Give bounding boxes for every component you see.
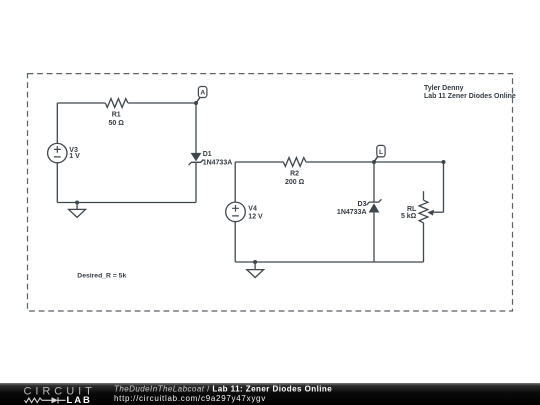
wire: right circuit top, source side [235, 161, 283, 163]
wire: left circuit bottom rail [57, 202, 196, 204]
junction: node L tap [372, 160, 376, 164]
footer logo: resistor-diode glyph [25, 397, 66, 403]
svg-text:V4: V4 [248, 205, 257, 212]
schematic sheet dashed border [28, 74, 513, 311]
ground (left circuit) [69, 203, 86, 218]
wire: V4 top lead [234, 162, 236, 202]
diode D3 (zener) [337, 199, 381, 216]
svg-text:L: L [379, 149, 383, 156]
wire: left circuit top, node A side [128, 102, 196, 104]
wire: RL bottom lead [423, 223, 425, 262]
node A [194, 87, 207, 106]
wire: D3 anode down to bottom rail [373, 213, 375, 262]
svg-text:R2: R2 [290, 171, 299, 178]
resistor R2 [283, 158, 306, 186]
svg-text:R1: R1 [112, 112, 121, 119]
svg-text:200 Ω: 200 Ω [285, 179, 305, 186]
ground (right circuit) [247, 262, 264, 278]
wire: V4 bottom lead [234, 222, 236, 262]
svg-text:LAB: LAB [67, 395, 92, 405]
wire: right circuit top, load side [306, 161, 444, 163]
svg-text:5 kΩ: 5 kΩ [401, 213, 417, 220]
svg-text:1N4733A: 1N4733A [337, 209, 367, 216]
svg-text:TheDudeInTheLabcoat / Lab 11:: TheDudeInTheLabcoat / Lab 11: Zener Diod… [114, 385, 332, 394]
svg-text:D3: D3 [358, 201, 367, 208]
svg-text:1N4733A: 1N4733A [203, 159, 233, 166]
diode D1 (zener) [189, 151, 233, 166]
voltage source V4 [226, 202, 263, 222]
wire: node L down to D3 [373, 162, 375, 202]
svg-text:RL: RL [407, 206, 417, 213]
wire: node A down to D1 [195, 103, 197, 153]
wire: right circuit bottom rail [235, 261, 423, 263]
junction: right ground tap [253, 260, 257, 264]
svg-text:Lab 11 Zener Diodes Online: Lab 11 Zener Diodes Online [424, 93, 516, 100]
junction: top-right corner dot [442, 160, 446, 164]
svg-text:1 V: 1 V [69, 153, 80, 160]
svg-text:50 Ω: 50 Ω [109, 120, 125, 127]
svg-text:http://circuitlab.com/c9a297y4: http://circuitlab.com/c9a297y47xygv [114, 394, 266, 403]
node L [374, 145, 385, 162]
svg-text:D1: D1 [203, 151, 212, 158]
junction: left ground tap [75, 201, 79, 205]
svg-text:A: A [200, 90, 205, 97]
wire: D1 cathode down to bottom rail [195, 162, 197, 202]
svg-text:12 V: 12 V [248, 213, 263, 220]
potentiometer RL (rheostat) [401, 191, 444, 223]
wire: left circuit top, source side [57, 102, 105, 104]
svg-text:Tyler Denny: Tyler Denny [424, 85, 464, 92]
wire: V3 bottom lead [56, 163, 58, 203]
wire: top rail corner down to RL wiper [443, 162, 445, 212]
footer bar [0, 383, 540, 405]
svg-text:Desired_R = 5k: Desired_R = 5k [77, 272, 126, 279]
resistor R1 [105, 99, 128, 127]
wire: V3 top lead [56, 103, 58, 143]
voltage source V3 [48, 143, 81, 162]
